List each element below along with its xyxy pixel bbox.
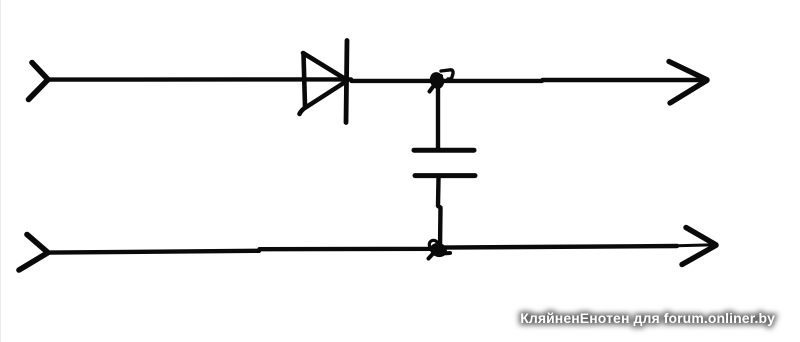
wire top horizontal xyxy=(48,79,704,81)
junction node B (scribbled dot) xyxy=(429,240,451,259)
wire vertical lower (capacitor to node B) xyxy=(438,178,441,248)
output terminal arrow bottom-right xyxy=(682,228,716,265)
diode D1 cathode bar xyxy=(346,41,347,123)
wire bottom horizontal xyxy=(48,246,677,253)
output terminal arrow top-right xyxy=(669,62,707,104)
diode D1 anode triangle xyxy=(300,53,347,114)
capacitor C1 top plate xyxy=(414,148,474,153)
junction node A (scribbled dot) xyxy=(428,70,453,92)
watermark xyxy=(520,310,775,326)
input terminal arrow bottom-left xyxy=(19,235,48,271)
capacitor C1 bottom plate xyxy=(415,173,475,178)
wire bottom thin lead to arrow xyxy=(677,245,715,246)
wire vertical upper (node A to capacitor) xyxy=(436,88,440,148)
input terminal arrow top-left xyxy=(29,63,49,100)
